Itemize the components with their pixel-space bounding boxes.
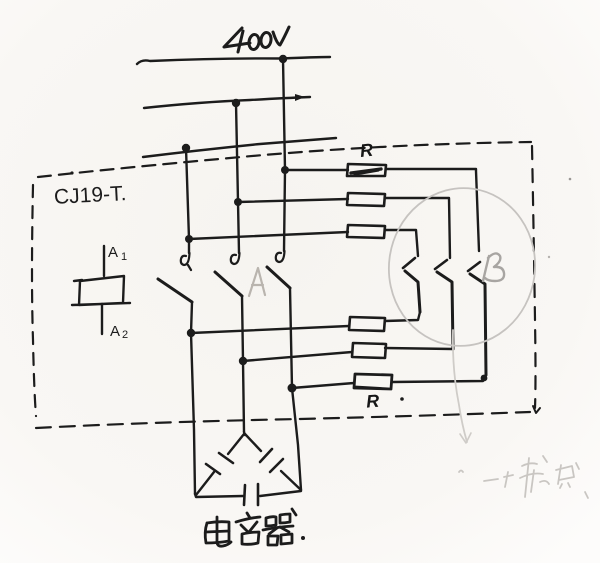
wire resistor R2 right to B2 (385, 198, 450, 258)
junction dot row2 tap (234, 198, 242, 206)
wire contact A2 down (242, 296, 244, 432)
pencil letter B (483, 253, 504, 281)
dashed enclosure right border (532, 146, 536, 408)
ink speck near ellipse (548, 256, 550, 258)
dashed enclosure top border (38, 142, 531, 177)
svg-text:CJ19-T.: CJ19-T. (53, 182, 126, 209)
capacitor C3 left wire (195, 494, 243, 497)
wire rail L2 (144, 97, 310, 108)
svg-text:1: 1 (121, 251, 127, 263)
coil KM body (72, 276, 130, 305)
pencil arrowhead (460, 433, 471, 443)
wire L3 down to contact A1 (186, 148, 189, 253)
label CJ19-T (53, 182, 126, 209)
contact A3 fixed hook (276, 251, 285, 262)
wire resistor R4 left (191, 326, 349, 333)
svg-text:R: R (359, 140, 374, 161)
junction dot on rail L3 (182, 144, 190, 152)
wire resistor R1 right to B3 (386, 169, 479, 251)
wire contact A3 down (290, 288, 301, 490)
arrowhead on rail L2 (295, 94, 305, 101)
coil KM (A1-A2) top stub (103, 246, 105, 276)
wire resistor R6 left (292, 383, 354, 388)
wire B2 to resistor R5 (385, 348, 453, 349)
contact B2 hook (435, 260, 447, 269)
junction dot row1 tap (281, 166, 289, 174)
capacitor C2 plates (260, 449, 283, 472)
contact A2 blade (215, 272, 242, 296)
junction dot A2 bottom tap (239, 357, 247, 365)
label dianrongqi char QI (263, 509, 296, 545)
resistor R5 (352, 343, 386, 358)
resistor R3 (347, 225, 385, 238)
contact A3 blade (267, 267, 290, 288)
contact B1 blade (405, 271, 420, 312)
dashed enclosure left border (32, 185, 36, 416)
capacitor C2 branch lower segment (281, 471, 301, 490)
contact A1 blade (158, 279, 192, 302)
wire to resistor R2 left (238, 199, 348, 202)
capacitor C3 plates (244, 484, 258, 505)
resistor R2 (347, 193, 385, 206)
dot after bottom R label (400, 397, 404, 401)
label dianrongqi char RONG (236, 513, 260, 544)
junction dot on rail L1 (279, 55, 287, 63)
ink speck right of border (569, 178, 572, 181)
wire rail L3 (143, 138, 336, 157)
period after capacitor label (301, 536, 305, 540)
label 400V (224, 27, 289, 52)
svg-text:2: 2 (122, 329, 128, 341)
junction dot A1 bottom tap (187, 329, 195, 337)
wire L1 down to contact A3 (283, 59, 285, 251)
wire resistor R5 left (243, 352, 352, 361)
contact B3 blade (470, 274, 486, 375)
label A1 (108, 244, 127, 263)
contact A1 fixed hook (181, 253, 191, 270)
pencil ellipse around B contacts (379, 179, 546, 356)
junction dot row3 tap (185, 235, 193, 243)
label A2 (110, 323, 128, 341)
label R top (359, 140, 374, 161)
dot of dash-dot at border start (70, 171, 73, 174)
wire resistor R3 right to B1 (385, 230, 418, 256)
wire B1 to resistor R4 (385, 312, 420, 321)
junction dot A3 bottom tap (288, 384, 297, 393)
junction dot on rail L2 (232, 99, 240, 107)
resistor R4 (349, 317, 385, 331)
wire rail L1 (137, 57, 330, 64)
capacitor C3 right wire (260, 491, 301, 496)
pencil arrow curve (453, 330, 467, 442)
resistor R1 (347, 164, 386, 176)
contact B1 hook (403, 258, 415, 268)
dashed enclosure bottom border (36, 412, 530, 428)
wire contact A1 down (191, 302, 195, 494)
svg-text:R: R (365, 391, 379, 412)
wire L2 down to contact A2 (236, 103, 239, 253)
pencil letter A (249, 268, 265, 296)
contact B3 hook (468, 262, 480, 271)
arrow tick at right border bottom corner (533, 406, 540, 413)
label R bottom (365, 391, 379, 412)
capacitor C1 branch upper segment (228, 434, 244, 454)
resistor R6 (354, 374, 392, 389)
contact A2 fixed hook (231, 253, 240, 264)
wire B3 to resistor R6 (392, 375, 486, 382)
contact B2 blade (437, 272, 453, 349)
coil KM bottom stub (101, 304, 103, 334)
junction blob B3 corner (481, 375, 488, 382)
capacitor C1 plates (206, 453, 233, 474)
svg-text:A: A (110, 323, 120, 340)
wire to resistor R3 left (189, 232, 348, 239)
capacitor C2 branch upper segment (245, 434, 261, 451)
svg-text:A: A (108, 244, 118, 261)
capacitor delta top corner (244, 432, 245, 435)
capacitor C1 branch lower segment (196, 472, 214, 495)
wire to resistor R1 left (285, 169, 348, 171)
pencil annotation text (yi ge jie dian) (459, 456, 588, 498)
label dianrongqi (capacitor) char DIAN (205, 517, 231, 546)
